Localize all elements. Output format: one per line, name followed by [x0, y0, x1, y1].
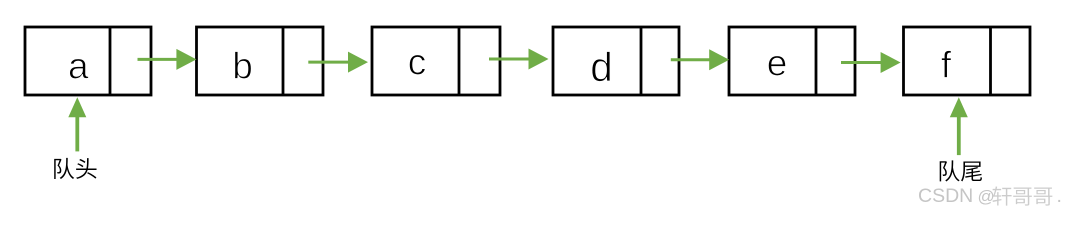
- svg-text:a: a: [68, 46, 89, 87]
- svg-text:f: f: [941, 45, 952, 86]
- svg-text:@: @: [978, 187, 995, 206]
- svg-text:e: e: [767, 42, 788, 83]
- svg-text:.: .: [1057, 185, 1062, 207]
- svg-text:b: b: [232, 46, 253, 87]
- svg-text:d: d: [590, 44, 613, 90]
- svg-text:CSDN: CSDN: [918, 185, 973, 207]
- svg-text:c: c: [408, 42, 427, 83]
